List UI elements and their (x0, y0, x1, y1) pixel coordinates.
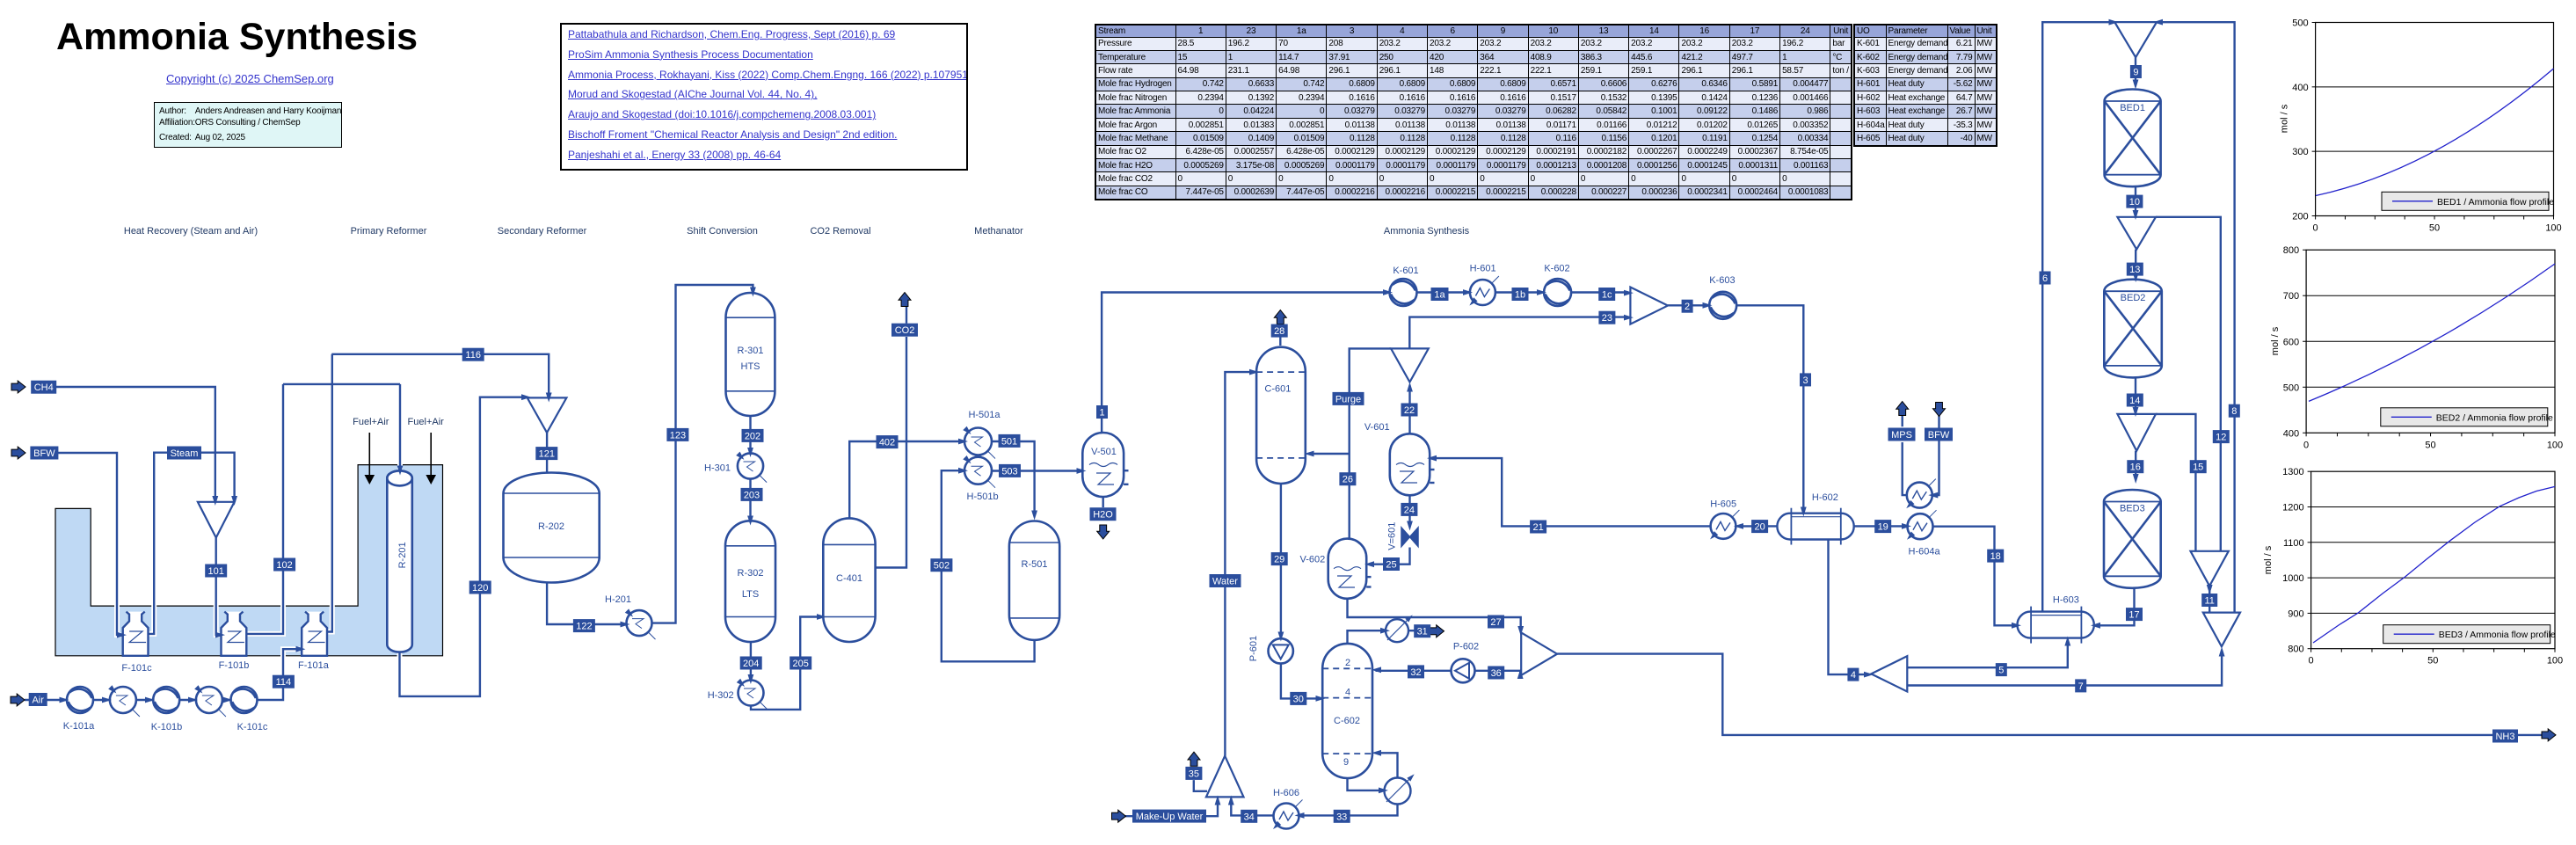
compressor K-602 (1544, 279, 1571, 306)
wire Make-Up Water line (1124, 800, 1218, 817)
reboiler of C-602 (1385, 772, 1416, 804)
svg-text:1100: 1100 (2283, 538, 2304, 549)
heat exchanger H-606 (1271, 800, 1303, 832)
product arrow CO2 (899, 293, 911, 307)
svg-text:35: 35 (1189, 769, 1199, 779)
svg-text:1300: 1300 (2282, 467, 2303, 477)
svg-text:26: 26 (1343, 475, 1353, 485)
svg-text:1: 1 (1099, 408, 1104, 419)
svg-text:600: 600 (2283, 337, 2299, 347)
wire V-602 stub a (1366, 576, 1371, 578)
svg-text:102: 102 (276, 560, 292, 571)
svg-text:R-201: R-201 (397, 542, 408, 568)
reactor R-202 (504, 473, 600, 583)
furnace F-101b (222, 612, 247, 656)
stream results table (1095, 24, 1852, 200)
wire stream 5 (1907, 640, 2068, 667)
svg-text:BED1 / Ammonia flow profile: BED1 / Ammonia flow profile (2437, 197, 2554, 208)
wire stream 25 (1369, 548, 1410, 565)
wire stream 116 header (331, 354, 549, 397)
label 30 (1290, 692, 1306, 705)
references box (560, 23, 968, 171)
svg-text:29: 29 (1274, 555, 1284, 565)
wire stream 16 (2135, 451, 2136, 478)
svg-text:204: 204 (743, 659, 759, 669)
reactor R-201 (387, 470, 412, 652)
label 34 (1241, 810, 1257, 823)
arrowhead into F-101c (117, 632, 127, 638)
svg-text:H2O: H2O (1093, 510, 1113, 521)
arrowhead into H-302 (747, 674, 753, 684)
svg-text:K-602: K-602 (1544, 264, 1569, 274)
svg-text:400: 400 (2292, 83, 2308, 93)
svg-text:700: 700 (2283, 291, 2299, 302)
svg-text:4: 4 (1851, 670, 1856, 681)
heat exchanger H-201 (625, 608, 656, 639)
svg-text:101: 101 (208, 566, 224, 577)
label 4 (1847, 668, 1859, 681)
svg-text:21: 21 (1532, 522, 1543, 533)
label 17 (2126, 608, 2143, 621)
svg-text:1a: 1a (1434, 290, 1445, 301)
mixer recycle+makeup (1630, 288, 1668, 324)
mixer loop top (2114, 22, 2157, 57)
label 29 (1271, 552, 1288, 565)
svg-text:Fuel+Air: Fuel+Air (408, 417, 445, 427)
svg-text:1200: 1200 (2282, 503, 2303, 514)
svg-text:28: 28 (1274, 326, 1284, 337)
wire stream 204 (750, 641, 752, 679)
wire stream 503 (992, 470, 1081, 471)
wire C-602 bottoms (1348, 777, 1383, 790)
svg-text:0: 0 (2303, 440, 2309, 450)
label 13 (2127, 263, 2143, 276)
arrowhead into mixer 11+8 apex (2219, 647, 2225, 657)
flash drum V-501 coil (1096, 473, 1114, 484)
product arrow H2O (1097, 525, 1110, 539)
feed arrow Make-Up Water (1112, 810, 1126, 822)
arrowhead into C-601 right (1305, 451, 1314, 457)
svg-text:800: 800 (2288, 645, 2303, 655)
svg-text:V-602: V-602 (1300, 555, 1326, 565)
wire 28 arrow stem (1279, 324, 1281, 324)
svg-text:24: 24 (1404, 505, 1415, 515)
arrowhead into F-101b (215, 632, 225, 638)
svg-text:F-101a: F-101a (298, 660, 330, 671)
wire stream 21 (1432, 458, 1711, 526)
arrowhead into C-401 (817, 614, 826, 620)
wire stream 502 (942, 470, 1035, 661)
svg-text:0: 0 (2309, 656, 2314, 667)
label 24 (1401, 503, 1417, 516)
product arrow 28 (1274, 310, 1286, 324)
wire NH3 product line (1557, 654, 2542, 735)
svg-text:400: 400 (2283, 428, 2299, 439)
reactor R-301 HTS (726, 293, 775, 416)
label 101 (205, 565, 227, 578)
label 31 (1414, 624, 1430, 637)
wire V-501 H2O outlet (1102, 496, 1103, 507)
arrowhead mixer steam right (231, 496, 237, 506)
label 12 (2213, 430, 2230, 443)
reactor BED1 (2105, 90, 2161, 187)
wire reboiler return (1376, 753, 1398, 777)
author info box (154, 102, 342, 148)
svg-text:503: 503 (1001, 466, 1017, 477)
label Make-Up Water (1132, 810, 1206, 823)
svg-text:30: 30 (1293, 694, 1304, 704)
arrowhead into mixer 27 corner (1517, 626, 1524, 636)
svg-text:500: 500 (2283, 382, 2299, 393)
wire V-601 stub a (1430, 469, 1434, 470)
svg-text:20: 20 (1754, 522, 1765, 533)
svg-text:P-601: P-601 (1248, 636, 1259, 661)
heat exchanger H-301 (736, 452, 767, 483)
svg-text:mol / s: mol / s (2270, 326, 2281, 355)
wire F-101a offgas riser (327, 354, 332, 632)
svg-text:402: 402 (879, 438, 895, 448)
svg-text:33: 33 (1336, 812, 1347, 822)
flash drum V-601 (1390, 433, 1430, 495)
label 503 (999, 464, 1021, 477)
svg-text:Make-Up Water: Make-Up Water (1136, 812, 1204, 822)
svg-text:H-605: H-605 (1710, 499, 1736, 510)
arrowhead into splitter4 (1864, 672, 1874, 678)
svg-text:200: 200 (2292, 212, 2308, 222)
label 19 (1874, 520, 1891, 533)
arrowhead into quench BED3 (2133, 407, 2139, 417)
svg-text:8: 8 (2231, 406, 2237, 417)
compressor K-101b (153, 687, 179, 713)
arrowhead mixer R-202 left (521, 394, 531, 400)
wire stream 203 (749, 479, 751, 521)
arrowhead into K-101b (145, 697, 155, 703)
wire CO2 offgas line (876, 337, 906, 568)
svg-text:BFW: BFW (1928, 430, 1950, 441)
arrowhead into H-606 (1295, 812, 1305, 819)
svg-text:CH4: CH4 (34, 382, 54, 393)
arrowhead into K-603 (1703, 302, 1713, 309)
svg-text:11: 11 (2204, 596, 2214, 607)
wire K-601 train line (1417, 291, 1629, 293)
label 9 (2130, 65, 2142, 78)
svg-text:H-602: H-602 (1812, 492, 1838, 503)
condenser on stream 31 (1386, 613, 1415, 642)
svg-text:203: 203 (744, 490, 760, 500)
wire CH4 feed line (56, 387, 215, 500)
wire MPS arrow stem (1901, 413, 1903, 426)
label 1a (1431, 288, 1449, 301)
mixer before R-202 (528, 397, 567, 433)
label 1b (1512, 288, 1529, 301)
svg-text:Air: Air (32, 696, 44, 706)
pump P-601 (1269, 638, 1293, 663)
wire V-601 stub b (1430, 482, 1434, 484)
svg-text:R-501: R-501 (1022, 559, 1048, 570)
label 102 (273, 558, 295, 572)
svg-text:10: 10 (2129, 197, 2140, 208)
arrowhead loop top right (2153, 19, 2163, 25)
label 502 (930, 558, 952, 572)
product arrow MPS (1896, 402, 1909, 416)
arrowhead into mixer 34 (1228, 796, 1234, 805)
chart BED3 plot (2282, 467, 2563, 667)
wire stream 11 (2209, 586, 2210, 612)
svg-text:Secondary Reformer: Secondary Reformer (498, 226, 587, 237)
svg-text:1c: 1c (1602, 290, 1612, 301)
arrowhead into cooler31 (1380, 628, 1390, 634)
wire stream 15 (2156, 414, 2195, 551)
label 33 (1334, 810, 1350, 823)
furnace F-101c (123, 612, 149, 656)
arrowhead into H-603 bottom (2064, 637, 2070, 646)
svg-text:100: 100 (2547, 440, 2563, 450)
svg-text:23: 23 (1602, 313, 1612, 324)
splitter purge (1391, 348, 1429, 382)
feed arrow CH4 (11, 381, 25, 393)
arrowhead into R-201 top (397, 466, 404, 476)
label 10 (2126, 195, 2143, 208)
absorber C-601 (1256, 347, 1306, 484)
svg-text:mol / s: mol / s (2280, 104, 2290, 133)
arrowhead into K-101c (223, 697, 233, 703)
wire stream 18 (1933, 527, 2017, 626)
arrowhead mixer R-202 top (546, 393, 552, 403)
svg-text:BED3 / Ammonia flow profile: BED3 / Ammonia flow profile (2439, 630, 2556, 640)
svg-text:C-401: C-401 (836, 573, 862, 584)
wire V-501 stub a (1124, 470, 1128, 471)
svg-text:100: 100 (2547, 656, 2563, 667)
svg-text:1000: 1000 (2282, 573, 2303, 584)
wire stream 28 (1279, 337, 1281, 346)
svg-text:900: 900 (2288, 608, 2303, 619)
arrowhead mixer 1c (1624, 290, 1634, 296)
svg-text:H-601: H-601 (1470, 264, 1496, 274)
svg-text:C-602: C-602 (1334, 716, 1360, 726)
label 3 (1800, 373, 1811, 386)
wire Air feed / K-101 train (25, 699, 257, 701)
svg-text:50: 50 (2429, 223, 2440, 234)
svg-text:501: 501 (1001, 436, 1017, 447)
wire Purge line (1350, 348, 1391, 538)
arrowhead into splitter purge (1407, 382, 1413, 392)
wire stream 123 (652, 285, 753, 623)
flash drum V-501 level (1089, 463, 1117, 467)
svg-text:F-101b: F-101b (219, 660, 250, 671)
arrowhead into H-501a (958, 439, 968, 445)
svg-text:Methanator: Methanator (974, 226, 1023, 237)
arrowhead cooler1 in (102, 697, 112, 703)
svg-text:22: 22 (1404, 405, 1415, 416)
wire stream 2 (1668, 304, 1708, 306)
label 116 (462, 348, 484, 361)
heat exchanger H-501b (963, 455, 995, 488)
svg-text:V=601: V=601 (1387, 522, 1398, 550)
svg-text:Steam: Steam (171, 448, 199, 459)
wire MPS riser (1903, 442, 1907, 495)
wire V-602 stub b (1366, 586, 1371, 587)
arrowhead into V-501 (1077, 468, 1087, 474)
label 21 (1530, 521, 1546, 534)
arrowhead into BED2 (2133, 273, 2139, 282)
svg-text:H-501b: H-501b (967, 492, 999, 502)
wire stream 35 stub (1194, 780, 1207, 791)
arrowhead into H-601 (1463, 289, 1473, 295)
wire stream 33 (1300, 804, 1398, 815)
compressor K-101c (231, 687, 258, 713)
product arrow 35 (1188, 752, 1200, 766)
wire stream 24 to valve (1408, 494, 1410, 527)
flash drum V-602 level (1334, 567, 1361, 571)
svg-text:BED3: BED3 (2120, 504, 2145, 514)
svg-text:17: 17 (2128, 610, 2139, 621)
heat exchanger H-603 (2018, 607, 2094, 644)
wire stream 202 (749, 415, 751, 452)
arrowhead into reboiler (1379, 787, 1388, 793)
label 7 (2075, 679, 2086, 692)
wire stream 34 (1231, 800, 1273, 816)
wire stream 205 (751, 617, 821, 710)
svg-text:0: 0 (2313, 223, 2318, 234)
svg-text:R-302: R-302 (738, 568, 764, 579)
wire stream 12 (2156, 217, 2221, 551)
wire stream 114 (257, 649, 300, 700)
label BFW (30, 447, 58, 460)
svg-text:15: 15 (2193, 463, 2203, 473)
arrowhead into H-602 top (1801, 507, 1807, 517)
svg-text:36: 36 (1491, 668, 1502, 679)
arrowhead into BED1 (2133, 80, 2139, 90)
label 20 (1751, 520, 1768, 533)
wire stream 13 (2135, 250, 2136, 277)
svg-text:25: 25 (1386, 560, 1396, 571)
svg-text:mol / s: mol / s (2263, 545, 2274, 574)
svg-text:9: 9 (1343, 757, 1349, 768)
label 27 (1488, 616, 1504, 629)
label 16 (2127, 460, 2143, 473)
arrowhead into K-101a (60, 697, 69, 703)
wire stream 19 (1854, 525, 1906, 527)
label NH3 (2492, 730, 2518, 743)
svg-text:500: 500 (2292, 18, 2308, 29)
chart BED2 plot (2283, 245, 2563, 450)
svg-text:NH3: NH3 (2495, 732, 2514, 742)
label 26 (1339, 472, 1356, 485)
svg-text:H-302: H-302 (708, 690, 734, 701)
svg-text:1b: 1b (1515, 290, 1525, 301)
label 14 (2127, 394, 2143, 407)
arrowhead into mixer MUW (1215, 796, 1221, 805)
label Water (1210, 574, 1241, 587)
svg-text:Ammonia Synthesis: Ammonia Synthesis (1384, 226, 1470, 237)
feed arrow BFW (11, 447, 25, 459)
label 36 (1488, 667, 1504, 680)
svg-text:123: 123 (670, 430, 686, 441)
heat exchanger H-302 (737, 679, 768, 710)
arrowhead into R-302 (747, 516, 753, 526)
svg-text:50: 50 (2425, 440, 2435, 450)
wire stream 10 (2135, 186, 2136, 215)
svg-text:121: 121 (539, 449, 555, 460)
label 402 (877, 435, 899, 448)
arrowhead into H-603 right (2091, 623, 2100, 629)
wire BFW2 downcomer (1933, 413, 1939, 495)
svg-text:HTS: HTS (741, 361, 760, 372)
wire stream 101 (216, 536, 220, 635)
svg-text:F-101c: F-101c (121, 663, 152, 674)
heat exchanger H-601 (1467, 276, 1499, 308)
svg-text:12: 12 (2216, 433, 2226, 443)
svg-text:Purge: Purge (1335, 394, 1361, 404)
arrowhead loop top left (2109, 19, 2119, 25)
svg-text:K-101a: K-101a (63, 721, 95, 732)
mixer quench BED3 (2117, 414, 2156, 451)
label 22 (1401, 404, 1418, 417)
heat-recovery shaded region (55, 465, 443, 656)
mixer streams 15+12 (2191, 551, 2229, 586)
arrowhead into K-601 (1383, 289, 1393, 295)
heat exchanger H-501a (963, 426, 995, 459)
wire stream 121 (546, 431, 548, 472)
arrowhead cooler2 in (188, 697, 198, 703)
label 11 (2201, 594, 2217, 607)
wire stream 27 (1348, 598, 1521, 630)
arrowhead into H-603 left (2012, 623, 2021, 629)
svg-text:31: 31 (1417, 627, 1428, 637)
steam generator exchanger (1904, 479, 1936, 511)
wire R-201 top feed (399, 384, 401, 470)
label BFW steam drum (1925, 428, 1953, 441)
svg-text:120: 120 (472, 583, 488, 594)
svg-text:116: 116 (465, 350, 481, 361)
svg-text:H-301: H-301 (704, 463, 731, 474)
svg-text:202: 202 (745, 431, 760, 441)
heat exchanger H-604a (1905, 510, 1937, 542)
wire stream 7 (1907, 651, 2222, 686)
label 122 (573, 619, 595, 632)
label 114 (273, 675, 295, 688)
label 121 (535, 447, 557, 460)
wire stream 4 (1829, 540, 1868, 675)
label 28 (1271, 324, 1288, 338)
arrowhead into C-602 right 32 (1372, 667, 1381, 673)
product arrow 31 (1430, 625, 1444, 637)
svg-text:Water: Water (1212, 577, 1238, 587)
wire stream 22 (1408, 386, 1410, 435)
svg-text:H-603: H-603 (2053, 595, 2079, 606)
wire V-501 stub b (1124, 484, 1128, 485)
svg-text:205: 205 (793, 659, 809, 669)
arrowhead mixer steam left (212, 496, 218, 506)
label 32 (1408, 665, 1424, 678)
wire stream 3 (1736, 305, 1803, 511)
svg-text:K-601: K-601 (1393, 266, 1418, 276)
wire 31 outlet (1408, 630, 1415, 631)
arrowhead into K-602 (1537, 289, 1546, 295)
svg-text:16: 16 (2130, 463, 2141, 473)
label Purge (1333, 392, 1364, 405)
label 6 (2040, 272, 2051, 285)
arrowhead into H-501b (958, 468, 968, 474)
label MPS (1888, 428, 1916, 441)
svg-text:14: 14 (2129, 396, 2140, 406)
pump P-602 (1452, 659, 1475, 682)
label 202 (742, 429, 764, 442)
svg-text:18: 18 (1990, 551, 2001, 562)
flash drum V-602 (1328, 539, 1367, 599)
svg-text:13: 13 (2129, 265, 2140, 275)
label H2O (1090, 507, 1117, 521)
